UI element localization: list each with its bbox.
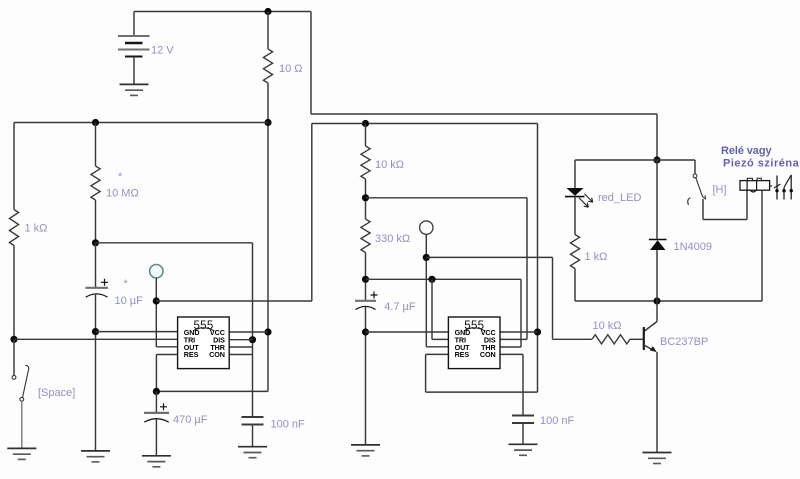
relay / piezo component: [740, 181, 770, 191]
wire switch to ground: [21, 401, 23, 448]
LED red_LED: [574, 160, 576, 188]
svg-text:100 nF: 100 nF: [271, 418, 306, 430]
wire VCC2 pin: [500, 331, 538, 333]
svg-text:1N4009: 1N4009: [674, 241, 713, 253]
node 470uF junction: [153, 388, 160, 395]
probe test point 2: [420, 221, 433, 234]
wire OUT2 pin: [426, 346, 448, 348]
svg-text:10 kΩ: 10 kΩ: [375, 159, 404, 171]
ground emitter: [643, 452, 672, 454]
wire RES2 pin loop: [426, 353, 449, 355]
node VCC rail right end: [264, 119, 271, 126]
svg-text:Piezó sziréna: Piezó sziréna: [723, 158, 800, 170]
wire CON1 pin: [229, 354, 252, 356]
switch [Space]: [13, 339, 15, 375]
wire collector rail: [575, 300, 762, 302]
capacitor C 100nF first: [242, 416, 264, 418]
resistor R 1k right: [574, 197, 576, 235]
svg-text:RES: RES: [184, 350, 199, 359]
transistor Q1 BC237BP: [656, 301, 658, 322]
capacitor C 470uF polarized: [155, 391, 157, 413]
svg-text:10 kΩ: 10 kΩ: [593, 320, 622, 332]
node LED rail junction: [653, 156, 660, 163]
wire battery+ top rail: [134, 11, 311, 13]
svg-text:10 MΩ: 10 MΩ: [106, 188, 139, 200]
switch [H]: [694, 160, 696, 174]
probe test point 1: [150, 265, 163, 278]
svg-text:red_LED: red_LED: [598, 192, 641, 204]
node TRI2 tap: [428, 276, 435, 283]
resistor R 10k mid: [365, 124, 367, 147]
node 10M/10uF junction: [92, 239, 99, 246]
svg-text:[H]: [H]: [713, 184, 727, 196]
wire RES1 pin loop: [156, 354, 177, 356]
wire OUT1 net to stage2 rail: [156, 300, 311, 302]
resistor R 330k: [361, 219, 370, 253]
svg-text:330 kΩ: 330 kΩ: [375, 233, 410, 245]
battery V1 12V: [133, 12, 135, 37]
wire TRI2 pin: [432, 338, 448, 340]
node DIS1: [249, 336, 256, 343]
wire VCC1 pin: [229, 331, 268, 333]
wire TRI1 pin: [14, 338, 178, 340]
wire THR1 pin: [229, 346, 252, 348]
svg-text:12 V: 12 V: [151, 45, 174, 57]
ground 470uF: [142, 455, 171, 457]
svg-text:1 kΩ: 1 kΩ: [25, 223, 48, 235]
ground 100nF second: [509, 443, 538, 445]
LED emission arrows: [585, 194, 593, 202]
node VCC1: [264, 328, 271, 335]
svg-text:Relé vagy: Relé vagy: [721, 145, 772, 157]
svg-text:10 Ω: 10 Ω: [279, 63, 303, 75]
node GND2: [362, 328, 369, 335]
wire GND1 pin: [96, 331, 178, 333]
wire DIS2 pin: [500, 338, 527, 340]
node 10M branch top: [92, 119, 99, 126]
node 10k/330k junction: [362, 194, 369, 201]
resistor R 1k left: [13, 123, 15, 210]
node OUT1 net: [153, 297, 160, 304]
node battery+/10ohm junction: [264, 8, 271, 15]
capacitor C 10uF polarized: [95, 243, 97, 288]
resistor 10 Ohm: [267, 12, 269, 50]
resistor R 10k base: [553, 338, 593, 340]
wire OUT1 pin: [156, 346, 177, 348]
svg-text:*: *: [124, 278, 129, 290]
wire 10k junction to DIS2: [366, 197, 528, 199]
wire VCC rail left: [14, 122, 268, 124]
svg-text:*: *: [118, 171, 123, 183]
node OUT2 net: [423, 254, 430, 261]
wire OUT2 to transistor base chain: [426, 256, 552, 258]
wire DIS1 pin: [229, 339, 252, 341]
ground [Space]: [7, 447, 36, 449]
relay contacts: [776, 176, 778, 200]
wire probe1 to OUT1: [155, 278, 157, 347]
svg-text:1 kΩ: 1 kΩ: [585, 251, 608, 263]
svg-text:10 µF: 10 µF: [115, 295, 144, 307]
svg-text:470 µF: 470 µF: [173, 414, 208, 426]
wire LED rail: [575, 159, 695, 161]
wire 10uF to ground, GND1 tap: [95, 294, 97, 451]
node collector junction: [653, 297, 660, 304]
wire relay right leg: [761, 190, 763, 301]
node TRI1 net: [10, 336, 17, 343]
svg-text:4.7 µF: 4.7 µF: [384, 301, 416, 313]
wire GND2 pin: [366, 331, 449, 333]
svg-text:CON: CON: [480, 350, 496, 359]
svg-text:[Space]: [Space]: [38, 387, 75, 399]
node VCC2: [534, 328, 541, 335]
wire stage2 VCC rail: [312, 123, 538, 125]
ground 4.7uF: [351, 444, 380, 446]
svg-text:100 nF: 100 nF: [540, 415, 575, 427]
op-amp timer U1 555: [178, 317, 230, 369]
node stage2 rail / 10k chain: [362, 120, 369, 127]
svg-text:CON: CON: [209, 350, 225, 359]
svg-text:RES: RES: [455, 350, 470, 359]
wire TRI2/THR2 net: [366, 278, 522, 280]
wire 4.7uF to ground, GND2 tap: [365, 307, 367, 445]
resistor R 10M: [95, 123, 97, 167]
node GND1: [92, 328, 99, 335]
ground 100nF first: [238, 446, 267, 448]
svg-text:BC237BP: BC237BP: [660, 336, 708, 348]
ground battery: [120, 83, 149, 85]
wire CON2 pin: [500, 353, 523, 355]
wire THR2 pin: [500, 346, 521, 348]
capacitor C 100nF second: [512, 415, 534, 417]
ground 10uF branch: [81, 450, 110, 452]
label plus: [101, 279, 108, 286]
capacitor C 4.7uF polarized: [355, 300, 376, 302]
wire 10ohm to VCC rail, down to VCC1 and RES1 loop: [267, 83, 269, 391]
wire 10M junction to DIS1/CON1 vertical: [96, 242, 253, 244]
node 330k/4.7uF junction: [362, 276, 369, 283]
diode D1 1N4009: [656, 160, 658, 240]
op-amp timer U2 555: [448, 317, 500, 369]
